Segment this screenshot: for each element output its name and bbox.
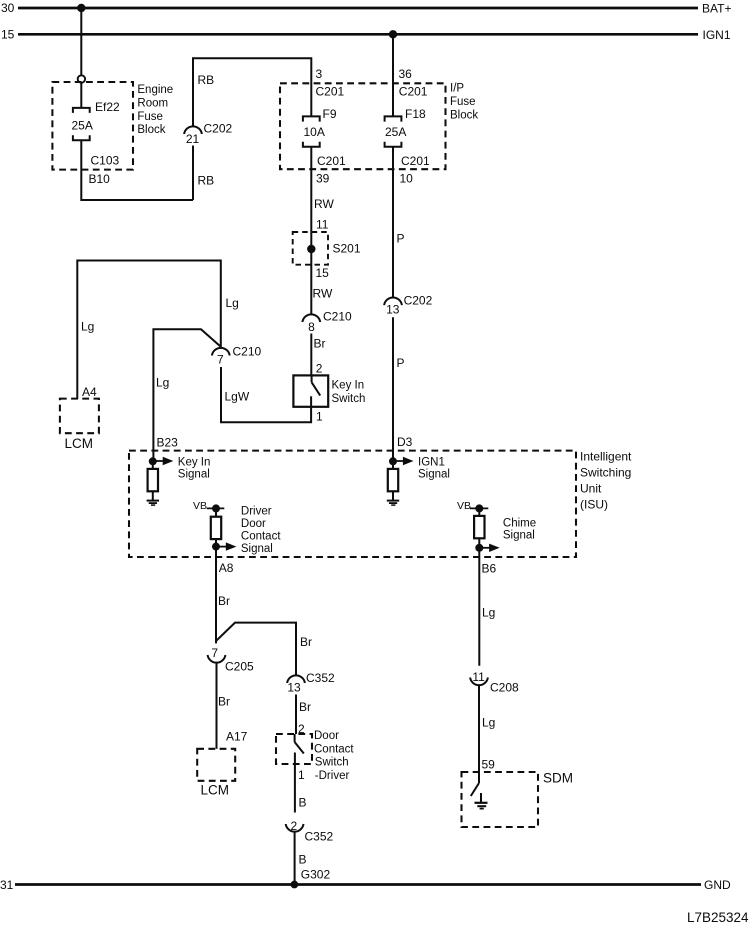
svg-text:10: 10 xyxy=(400,172,414,186)
svg-text:A17: A17 xyxy=(226,730,248,744)
svg-text:7: 7 xyxy=(211,646,218,660)
svg-text:(ISU): (ISU) xyxy=(580,498,608,512)
svg-text:A8: A8 xyxy=(219,561,234,575)
LCM box A4 xyxy=(60,399,99,434)
label Intelligent Switching Unit (ISU) xyxy=(580,450,632,512)
wire LgW from Key In Switch to C210 pin 7 xyxy=(221,367,311,422)
svg-text:25A: 25A xyxy=(72,119,93,133)
connector C205 pin 7 xyxy=(208,646,254,674)
node VB: Driver Door Contact Signal xyxy=(193,500,224,512)
svg-text:3: 3 xyxy=(316,67,323,81)
connector C352 pin 2 xyxy=(286,819,334,844)
svg-text:Chime: Chime xyxy=(503,518,536,530)
wire Br from C210 to Key In Switch xyxy=(310,334,312,376)
resistor (IGN1 pull-down) xyxy=(388,461,398,500)
svg-text:C352: C352 xyxy=(305,830,334,844)
svg-text:Signal: Signal xyxy=(178,468,210,480)
svg-text:1: 1 xyxy=(298,768,305,782)
fuse F9 10A xyxy=(303,107,337,147)
connector C208 pin 11 xyxy=(470,670,519,695)
splice S201 xyxy=(293,232,361,265)
svg-text:59: 59 xyxy=(482,758,496,772)
svg-text:RW: RW xyxy=(313,287,333,301)
svg-text:C201: C201 xyxy=(317,154,346,168)
svg-text:GND: GND xyxy=(704,878,731,892)
wire Lg from B6 to C208 xyxy=(478,548,480,666)
svg-text:F9: F9 xyxy=(323,107,337,121)
svg-text:C352: C352 xyxy=(306,671,335,685)
svg-text:Driver: Driver xyxy=(241,506,272,518)
Key In Switch xyxy=(293,375,365,407)
svg-text:Br: Br xyxy=(218,695,230,709)
svg-text:Signal: Signal xyxy=(503,530,535,542)
svg-text:2: 2 xyxy=(316,362,323,376)
svg-text:C208: C208 xyxy=(490,681,519,695)
svg-text:Br: Br xyxy=(299,700,311,714)
svg-text:S201: S201 xyxy=(333,242,361,256)
svg-text:B10: B10 xyxy=(89,172,111,186)
svg-text:LgW: LgW xyxy=(225,390,250,404)
svg-text:LCM: LCM xyxy=(201,783,230,798)
wire Br from C352 to door switch xyxy=(295,695,297,735)
fuse Ef22 25A xyxy=(72,100,121,140)
svg-text:BAT+: BAT+ xyxy=(702,2,731,16)
svg-text:C210: C210 xyxy=(233,345,262,359)
wire RB from C202 up and over to fuse F9 xyxy=(193,58,311,126)
svg-text:21: 21 xyxy=(186,132,200,146)
Door Contact Switch - Driver xyxy=(276,730,354,782)
connector C352 pin 13 xyxy=(287,671,335,695)
svg-text:Signal: Signal xyxy=(418,468,450,480)
svg-text:15: 15 xyxy=(316,266,330,280)
connector C202 pin 21 xyxy=(184,122,232,201)
svg-text:Signal: Signal xyxy=(241,543,273,555)
svg-text:IGN1: IGN1 xyxy=(703,28,731,42)
svg-text:Fuse: Fuse xyxy=(450,96,476,108)
I/P Fuse Block box xyxy=(280,83,446,169)
wire P from F18 to C202 pin 13 xyxy=(392,147,394,297)
wire B from C352 to G302 xyxy=(294,832,296,885)
svg-text:Contact: Contact xyxy=(314,743,354,755)
SDM ground xyxy=(475,793,488,809)
svg-text:RB: RB xyxy=(198,174,215,188)
svg-text:Lg: Lg xyxy=(81,320,94,334)
svg-text:I/P: I/P xyxy=(450,83,464,95)
svg-text:B23: B23 xyxy=(157,436,179,450)
svg-text:RW: RW xyxy=(314,197,334,211)
ISU box xyxy=(129,451,576,557)
svg-text:15: 15 xyxy=(1,28,15,42)
svg-text:Key In: Key In xyxy=(178,457,211,469)
bus 31 (GND) xyxy=(0,878,731,892)
wire RW from F9 to S201 to C210 xyxy=(310,147,312,314)
wire BAT+ to Engine Room Fuse Block xyxy=(80,8,82,75)
wire B from door switch to C352 pin 2 xyxy=(294,764,296,813)
svg-text:C201: C201 xyxy=(316,85,345,99)
svg-text:Lg: Lg xyxy=(482,716,495,730)
svg-text:C210: C210 xyxy=(323,310,352,324)
svg-text:11: 11 xyxy=(316,218,329,232)
svg-text:Unit: Unit xyxy=(580,482,602,496)
wire Lg from LCM A4 over to C210 pin 7 xyxy=(77,261,221,400)
svg-text:1: 1 xyxy=(316,410,323,424)
svg-text:30: 30 xyxy=(1,1,15,15)
wire Ef22 to B10 and over to C202 xyxy=(81,140,193,200)
junction dot G302 xyxy=(291,881,299,889)
svg-text:C201: C201 xyxy=(401,154,430,168)
svg-text:2: 2 xyxy=(290,819,297,833)
svg-text:7: 7 xyxy=(217,353,224,367)
svg-text:P: P xyxy=(397,232,405,246)
connector C202 pin 13 xyxy=(384,294,433,317)
svg-text:11: 11 xyxy=(472,670,485,684)
resistor (Chime pull-up) xyxy=(474,508,484,547)
svg-text:Lg: Lg xyxy=(156,376,169,390)
svg-text:Lg: Lg xyxy=(482,606,495,620)
svg-text:VB: VB xyxy=(193,500,207,512)
svg-text:Ef22: Ef22 xyxy=(95,100,120,114)
node D3: IGN1 Signal input xyxy=(389,457,450,481)
svg-text:Br: Br xyxy=(218,594,230,608)
svg-text:13: 13 xyxy=(287,681,301,695)
bus 30 (BAT+) xyxy=(1,1,731,16)
junction dot bus 15 / F18 feed xyxy=(389,30,397,38)
svg-text:Br: Br xyxy=(314,337,326,351)
svg-text:D3: D3 xyxy=(397,435,413,449)
wire Br from A8 to C205 xyxy=(215,547,217,644)
node B6 output arrow xyxy=(475,518,536,553)
wire ring to fuse Ef22 xyxy=(80,83,82,108)
svg-text:36: 36 xyxy=(399,67,413,81)
svg-text:Fuse: Fuse xyxy=(137,111,163,123)
svg-text:C103: C103 xyxy=(91,154,120,168)
label I/P Fuse Block xyxy=(450,83,478,122)
wire from bus 15 to fuse F18 xyxy=(392,34,394,116)
svg-text:SDM: SDM xyxy=(543,771,573,786)
SDM contact blade xyxy=(471,783,479,796)
terminal ring at fuse block entry xyxy=(78,75,85,82)
svg-text:Block: Block xyxy=(450,109,478,121)
svg-text:Door: Door xyxy=(314,730,339,742)
svg-text:A4: A4 xyxy=(82,385,97,399)
wire P from C202 pin 13 down to D3 xyxy=(392,317,394,461)
svg-text:B: B xyxy=(299,796,307,810)
fuse F18 25A xyxy=(385,107,426,147)
resistor (Driver Door pull-up) xyxy=(211,509,221,547)
svg-text:Switch: Switch xyxy=(315,757,349,769)
svg-text:L7B25324: L7B25324 xyxy=(687,910,749,925)
svg-text:10A: 10A xyxy=(304,125,325,139)
svg-text:C202: C202 xyxy=(204,122,233,136)
ground (Key In) xyxy=(147,501,159,506)
wire Lg from C210 pin 7 joint down to B23 xyxy=(153,329,220,461)
svg-text:Room: Room xyxy=(137,97,168,109)
svg-text:LCM: LCM xyxy=(65,436,94,451)
svg-text:C202: C202 xyxy=(404,294,433,308)
svg-text:RB: RB xyxy=(198,73,215,87)
Engine Room Fuse Block box xyxy=(52,82,133,170)
label Engine Room Fuse Block xyxy=(137,84,173,136)
svg-text:Switch: Switch xyxy=(332,393,366,405)
connector C210 pin 8 xyxy=(302,310,352,335)
svg-text:39: 39 xyxy=(316,172,330,186)
svg-text:Switching: Switching xyxy=(580,466,631,480)
svg-text:F18: F18 xyxy=(405,107,426,121)
svg-text:Intelligent: Intelligent xyxy=(580,450,632,464)
svg-text:Lg: Lg xyxy=(226,296,239,310)
svg-text:8: 8 xyxy=(308,320,315,334)
svg-text:VB: VB xyxy=(457,500,471,512)
svg-text:IGN1: IGN1 xyxy=(418,457,445,469)
wire Lg from C208 to SDM xyxy=(478,685,480,783)
svg-text:B: B xyxy=(299,853,307,867)
junction dot bus 30 / Ef22 feed xyxy=(77,4,85,12)
bus 15 (IGN1) xyxy=(1,28,731,42)
wire Br branch over to C352 pin 13 xyxy=(216,623,296,675)
svg-text:P: P xyxy=(397,356,405,370)
wire Br from C205 to LCM A17 xyxy=(216,663,218,749)
svg-text:B6: B6 xyxy=(482,562,497,576)
svg-text:Door: Door xyxy=(241,518,266,530)
LCM box A17 xyxy=(197,749,235,781)
node A8 output arrow xyxy=(212,506,281,555)
node VB: Chime Signal xyxy=(457,500,488,512)
resistor (Key In pull-down) xyxy=(148,461,158,500)
svg-text:C205: C205 xyxy=(225,660,254,674)
svg-text:Key In: Key In xyxy=(332,380,365,392)
svg-text:31: 31 xyxy=(0,878,14,892)
connector C210 pin 7 xyxy=(212,345,262,367)
svg-text:25A: 25A xyxy=(385,125,406,139)
svg-text:13: 13 xyxy=(386,303,400,317)
svg-text:-Driver: -Driver xyxy=(315,770,350,782)
svg-text:Block: Block xyxy=(137,124,165,136)
svg-text:C201: C201 xyxy=(399,85,428,99)
svg-text:Contact: Contact xyxy=(241,530,281,542)
SDM box xyxy=(462,772,539,827)
svg-text:Br: Br xyxy=(300,635,312,649)
svg-text:G302: G302 xyxy=(301,868,331,882)
svg-text:Engine: Engine xyxy=(137,84,173,96)
node B23: Key In Signal input xyxy=(149,457,211,481)
ground (IGN1) xyxy=(387,501,399,506)
